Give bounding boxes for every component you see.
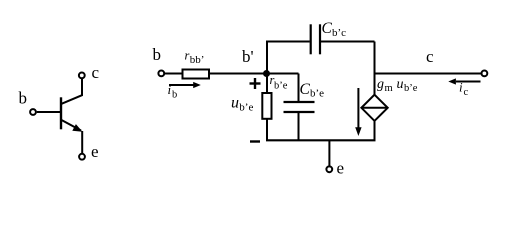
wire right branch down to source xyxy=(374,42,376,95)
voltage ub'e label xyxy=(231,94,253,113)
wire emitter vertical xyxy=(81,131,83,153)
controlled source gm ub'e diamond xyxy=(361,95,387,121)
svg-text:u: u xyxy=(231,94,239,111)
svg-text:b: b xyxy=(19,89,28,108)
svg-text:b’e: b’e xyxy=(310,88,324,100)
svg-text:bb’: bb’ xyxy=(190,54,205,66)
svg-text:b': b' xyxy=(242,47,254,66)
svg-text:e: e xyxy=(91,142,99,161)
resistor rbb' label xyxy=(185,48,205,66)
svg-text:b’e: b’e xyxy=(239,102,253,114)
wire rbb to node b' xyxy=(209,73,299,75)
wire Cb'c to right branch xyxy=(321,41,375,43)
wire source to rail xyxy=(374,121,376,140)
svg-text:i: i xyxy=(168,82,172,97)
wire to capacitor cb'e top xyxy=(298,74,300,102)
transistor Q1 collector label c xyxy=(92,63,100,82)
current ib label xyxy=(168,82,178,100)
transistor Q1 emitter arrow xyxy=(72,124,82,132)
terminal c xyxy=(482,71,488,77)
wire rb'e to rail xyxy=(266,119,268,140)
svg-text:b’c: b’c xyxy=(332,27,346,39)
transistor Q1 collector lead xyxy=(62,79,83,104)
transistor Q1 base terminal xyxy=(30,109,36,115)
node c terminal label xyxy=(426,47,434,66)
polarity plus sign xyxy=(250,82,261,84)
controlled source label gm ub'e xyxy=(377,77,418,94)
capacitor Cb'e xyxy=(284,101,315,103)
svg-text:m: m xyxy=(385,83,393,94)
terminal b xyxy=(158,71,164,77)
svg-text:e: e xyxy=(337,159,345,178)
wire node b' down to rb'e xyxy=(266,74,268,93)
svg-text:u: u xyxy=(397,77,404,92)
capacitor Cb'c xyxy=(310,24,312,54)
svg-text:g: g xyxy=(377,77,384,92)
bottom rail wire xyxy=(266,139,376,141)
wire b to rbb xyxy=(165,73,183,75)
transistor Q1 collector terminal xyxy=(79,73,85,79)
svg-text:i: i xyxy=(459,80,463,95)
terminal e xyxy=(326,166,332,172)
svg-text:c: c xyxy=(464,87,469,98)
wire node b' up and over to Cb'c xyxy=(267,42,310,74)
svg-text:b’e: b’e xyxy=(404,83,418,94)
resistor rbb' xyxy=(183,70,210,79)
wire capacitor cb'e bottom to rail xyxy=(298,113,300,140)
polarity minus sign xyxy=(250,140,260,142)
svg-text:c: c xyxy=(92,63,100,82)
svg-text:b: b xyxy=(172,89,177,100)
capacitor Cb'c label xyxy=(322,20,347,39)
wire collector rail xyxy=(375,73,482,75)
resistor rb'e xyxy=(262,93,271,119)
transistor Q1 base bar xyxy=(60,97,62,129)
node e terminal label xyxy=(337,159,345,178)
current ic label xyxy=(459,80,469,98)
transistor Q1 emitter label e xyxy=(91,142,99,161)
node b' junction dot xyxy=(263,70,270,77)
svg-text:C: C xyxy=(300,81,311,98)
node b terminal label xyxy=(153,45,162,64)
node b' label xyxy=(242,47,254,66)
resistor rb'e label xyxy=(270,73,288,91)
svg-text:b: b xyxy=(153,45,162,64)
controlled source current arrow xyxy=(357,88,359,129)
transistor Q1 emitter terminal xyxy=(79,154,85,160)
svg-text:C: C xyxy=(322,20,333,37)
wire base lead xyxy=(37,111,60,113)
wire rail to e terminal xyxy=(328,140,330,165)
transistor Q1 base label b xyxy=(19,89,28,108)
current ic arrow xyxy=(456,81,481,83)
capacitor Cb'e label xyxy=(300,81,325,100)
transistor Q1 emitter lead xyxy=(62,120,82,131)
svg-text:b’e: b’e xyxy=(274,80,288,91)
current ib arrow xyxy=(169,84,194,86)
svg-text:c: c xyxy=(426,47,434,66)
